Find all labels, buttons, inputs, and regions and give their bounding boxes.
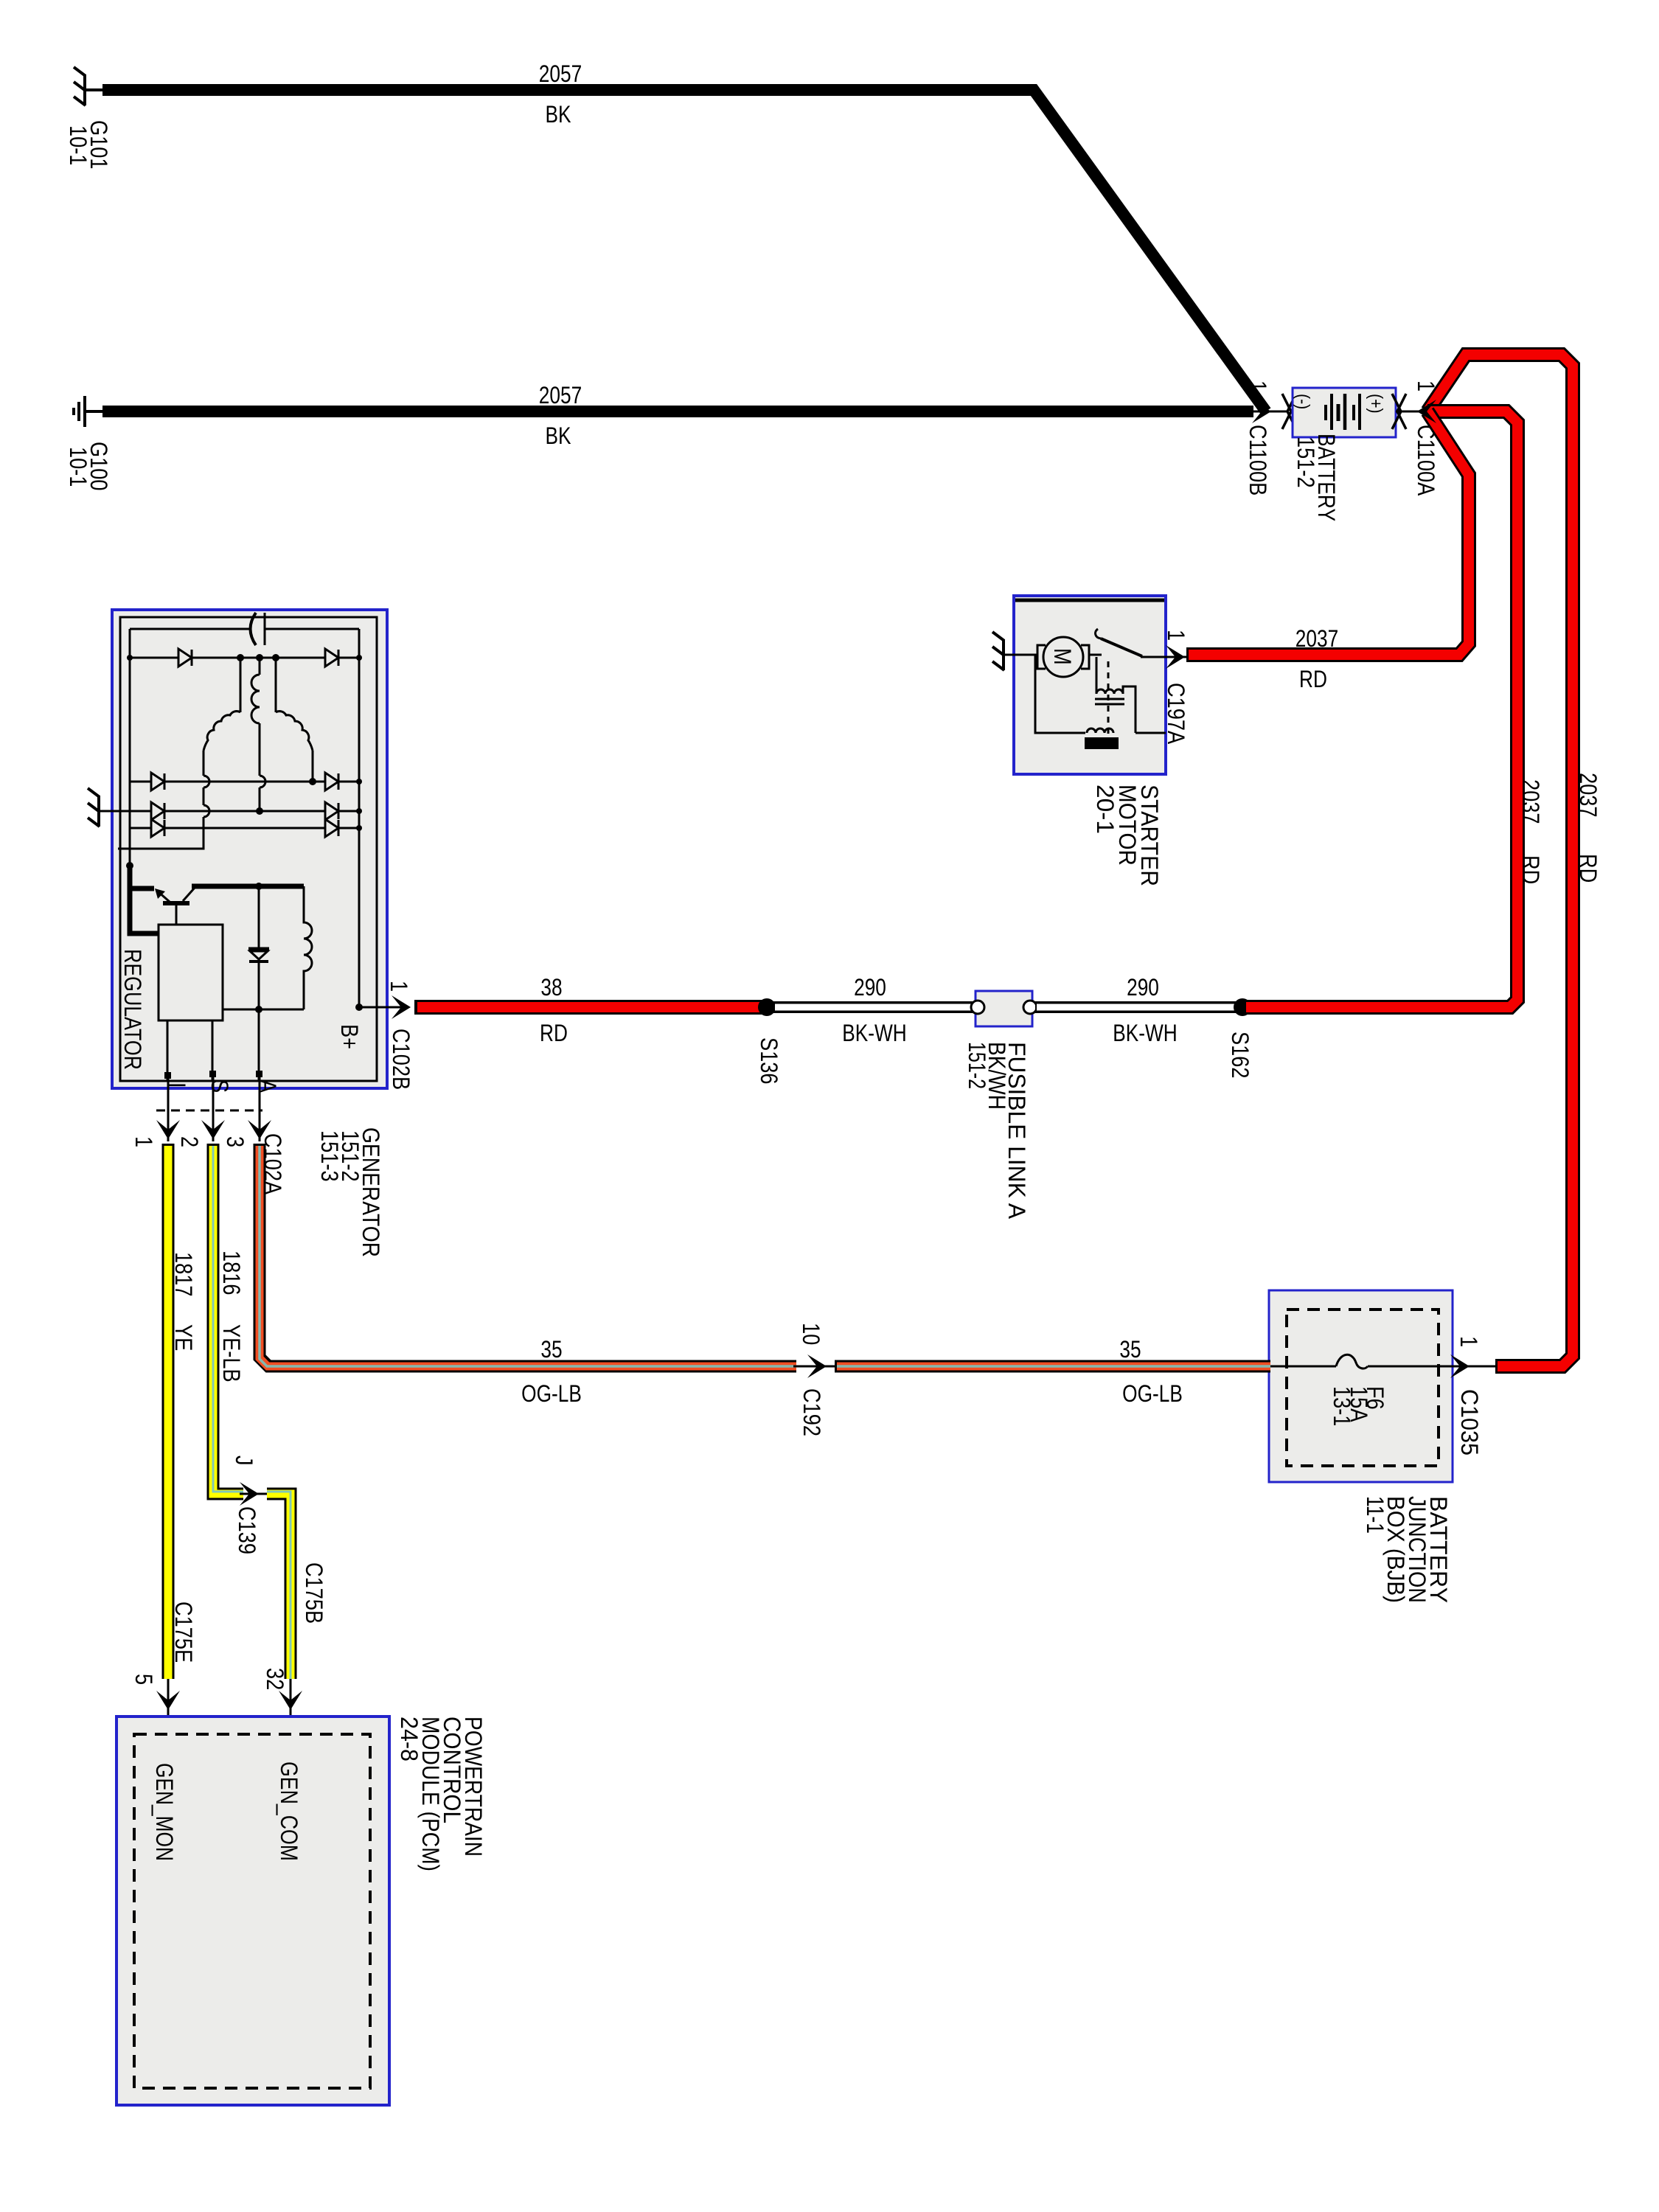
svg-text:32: 32 xyxy=(262,1668,288,1690)
svg-text:GEN_COM: GEN_COM xyxy=(276,1761,302,1861)
svg-text:10-1: 10-1 xyxy=(65,125,91,165)
svg-text:2037: 2037 xyxy=(1575,773,1601,818)
ground symbol (generator) xyxy=(88,788,100,827)
wire 35 OG-LB (generator A to C192) xyxy=(260,1144,796,1366)
svg-text:C175B: C175B xyxy=(301,1562,327,1624)
junction dots field circuit xyxy=(255,883,262,890)
wire into fuse xyxy=(1269,1366,1336,1368)
wire switch to box edge xyxy=(1141,656,1166,658)
svg-text:1: 1 xyxy=(1163,630,1189,641)
wire right bus B+ xyxy=(358,629,361,1007)
svg-text:OG-LB: OG-LB xyxy=(521,1380,582,1407)
svg-text:RD: RD xyxy=(1299,666,1327,692)
svg-text:J: J xyxy=(231,1455,257,1466)
diode D3 xyxy=(151,773,164,790)
svg-text:S162: S162 xyxy=(1227,1032,1253,1079)
field diode D9 xyxy=(258,886,260,1009)
svg-text:YE: YE xyxy=(170,1324,197,1351)
regulator pin I lead xyxy=(167,1020,169,1081)
wire 35 OG-LB (C192 to BJB) xyxy=(835,1360,1270,1373)
PCM dashed box xyxy=(134,1734,370,2088)
PCM pin 32 arrow xyxy=(290,1679,292,1734)
regulator pin S lead xyxy=(212,1020,214,1081)
connector C102A dashed line xyxy=(156,1110,262,1112)
wire stub G100 xyxy=(85,410,105,413)
wire 2037 RD battery to BJB (outer) xyxy=(1427,355,1573,1366)
connector C139 arrow J xyxy=(240,1493,270,1495)
C102A pin leads xyxy=(168,1077,260,1141)
svg-text:REGULATOR: REGULATOR xyxy=(119,949,146,1070)
wire collector bus (thick) xyxy=(192,884,304,889)
svg-text:11-1: 11-1 xyxy=(1362,1496,1388,1534)
svg-text:(-): (-) xyxy=(1293,394,1313,409)
svg-text:151-2: 151-2 xyxy=(964,1042,990,1089)
fusible link terminals xyxy=(971,1001,984,1014)
svg-text:M: M xyxy=(1049,648,1076,665)
generator box xyxy=(112,610,387,1088)
svg-text:BK: BK xyxy=(546,422,571,449)
svg-text:1: 1 xyxy=(1245,380,1271,392)
stator right winding xyxy=(276,712,313,751)
svg-text:13-1: 13-1 xyxy=(1329,1386,1355,1426)
connector C1100B arrow xyxy=(1253,411,1287,413)
starter box inner top edge xyxy=(1015,599,1164,602)
svg-text:1: 1 xyxy=(386,981,412,992)
stator right chain down xyxy=(312,751,314,782)
svg-text:1816: 1816 xyxy=(218,1251,245,1295)
transistor Q1 base lead xyxy=(175,903,178,925)
regulator pin A lead xyxy=(258,1009,260,1081)
wire 290 BK-WH (S136 to fusible link) xyxy=(771,1001,973,1013)
wire rectifier row 1 xyxy=(130,657,359,659)
svg-text:RD: RD xyxy=(1575,854,1601,883)
motor brush left xyxy=(1037,645,1046,669)
svg-text:290: 290 xyxy=(854,974,886,1001)
wire stub G101 xyxy=(85,88,105,91)
wire left leg xyxy=(1035,655,1085,733)
wire fuse to C1035 xyxy=(1368,1366,1497,1368)
wire 38 RD (generator B+ to S136) xyxy=(414,1000,771,1015)
wire into motor xyxy=(1014,654,1037,656)
transistor Q1 collector xyxy=(183,888,195,901)
connector C102B arrow xyxy=(392,995,411,1019)
svg-text:OG-LB: OG-LB xyxy=(1122,1380,1183,1407)
svg-text:1: 1 xyxy=(1455,1336,1482,1347)
stator center coil xyxy=(251,658,260,723)
diode D5 xyxy=(151,802,164,820)
wire top internal xyxy=(130,628,359,630)
svg-text:A: A xyxy=(254,1079,281,1093)
wire rectifier row 2 xyxy=(130,781,359,783)
svg-text:2057: 2057 xyxy=(539,382,582,408)
svg-text:GEN_MON: GEN_MON xyxy=(151,1763,178,1861)
field coil L1 xyxy=(304,886,312,1009)
svg-text:151-3: 151-3 xyxy=(316,1130,343,1182)
diode D2 xyxy=(325,649,338,667)
BJB dashed box xyxy=(1287,1310,1439,1466)
stator drop right xyxy=(275,658,277,712)
stator drop left xyxy=(240,658,242,712)
wire 2057 BK (G101 to battery, with diagonal) xyxy=(102,90,1266,411)
ground symbol (starter) xyxy=(992,632,1004,670)
svg-text:5: 5 xyxy=(131,1674,157,1685)
solenoid coil 1 xyxy=(1096,689,1123,694)
diode D1 xyxy=(178,649,192,667)
wire 1816 YE-LB (C139 to PCM) xyxy=(267,1494,291,1679)
pin terminal dots xyxy=(164,1072,171,1079)
node dot left bus xyxy=(126,862,133,869)
svg-text:BK: BK xyxy=(546,101,571,128)
svg-text:10: 10 xyxy=(798,1323,824,1345)
PCM pin 5 arrow xyxy=(167,1679,170,1734)
battery box 151-2 xyxy=(1293,388,1396,437)
splice S136 xyxy=(758,998,776,1016)
generator inner frame xyxy=(120,617,377,1081)
connector C197A arrow xyxy=(1166,656,1192,658)
thick bus segments (regulator supply) xyxy=(130,863,159,933)
junction dots stator/rows xyxy=(237,654,244,661)
wire rectifier row 3 xyxy=(130,827,359,829)
svg-text:1: 1 xyxy=(131,1136,157,1147)
diode D7 xyxy=(151,819,164,837)
solenoid core block xyxy=(1085,737,1119,749)
switch blade xyxy=(1101,639,1142,656)
ground wire into generator xyxy=(99,810,359,813)
wire 1816 YE-LB (generator S to C139) xyxy=(213,1144,243,1494)
svg-text:38: 38 xyxy=(540,974,562,1001)
svg-text:C192: C192 xyxy=(799,1388,825,1436)
svg-text:3: 3 xyxy=(222,1136,248,1147)
diode D8 xyxy=(325,819,338,837)
battery cell plates xyxy=(1324,405,1327,420)
svg-text:151-2: 151-2 xyxy=(1293,437,1319,488)
starter motor box xyxy=(1014,596,1166,774)
svg-text:35: 35 xyxy=(540,1336,562,1363)
fuse F6 15A xyxy=(1336,1354,1368,1368)
svg-text:C102B: C102B xyxy=(388,1029,414,1090)
connector C192 arrow xyxy=(793,1366,838,1368)
wire 290 BK-WH (fusible link to S162) xyxy=(1035,1001,1239,1013)
svg-text:BK-WH: BK-WH xyxy=(1113,1020,1178,1046)
diode D6 xyxy=(325,802,338,820)
splice S162 xyxy=(1234,998,1251,1016)
C102A pin arrows xyxy=(156,1120,180,1139)
solenoid linkage dashed xyxy=(1107,661,1110,740)
motor brush right xyxy=(1081,645,1089,669)
svg-text:C1035: C1035 xyxy=(1456,1389,1483,1455)
svg-text:1817: 1817 xyxy=(170,1252,197,1297)
svg-text:(+): (+) xyxy=(1366,394,1386,414)
svg-text:C197A: C197A xyxy=(1163,683,1189,745)
svg-text:BK-WH: BK-WH xyxy=(842,1020,907,1046)
connector C1035 arrow xyxy=(1450,1354,1470,1378)
regulator box xyxy=(159,925,223,1020)
wire 2037 RD battery to starter (inner) xyxy=(1186,411,1469,655)
svg-text:RD: RD xyxy=(540,1020,568,1046)
stator left chain down xyxy=(118,751,209,849)
fusible link A box xyxy=(975,991,1032,1026)
stator center drop with hop xyxy=(260,723,265,811)
svg-text:2: 2 xyxy=(176,1136,203,1147)
svg-text:B+: B+ xyxy=(336,1024,363,1049)
diode D4 xyxy=(325,773,338,790)
svg-text:24-8: 24-8 xyxy=(396,1717,422,1761)
transistor Q1 base bar xyxy=(163,901,189,905)
ground stub starter xyxy=(1004,654,1015,656)
wire motor to switch xyxy=(1089,654,1102,656)
stator left winding xyxy=(204,712,240,751)
transistor Q1 emitter xyxy=(158,891,170,902)
svg-text:20-1: 20-1 xyxy=(1092,785,1119,834)
svg-text:35: 35 xyxy=(1119,1336,1141,1363)
svg-text:S136: S136 xyxy=(756,1037,782,1085)
motor M xyxy=(1043,637,1083,677)
connector C1100A arrow (over red) xyxy=(1417,400,1436,423)
connector C1100A arrow xyxy=(1396,411,1429,413)
ground G100 xyxy=(74,396,85,427)
capacitor C (noise suppressor) xyxy=(251,613,257,645)
solenoid coil 2 xyxy=(1087,728,1113,733)
svg-text:C139: C139 xyxy=(234,1506,260,1554)
svg-text:C175E: C175E xyxy=(170,1601,197,1663)
svg-text:YE-LB: YE-LB xyxy=(218,1324,245,1382)
battery junction box (BJB) xyxy=(1269,1290,1453,1482)
ground G101 xyxy=(74,67,86,105)
wire junction to coil xyxy=(1096,657,1098,694)
wire 2037 RD battery to S162 (middle) xyxy=(1246,411,1517,1007)
wire 1817 YE (generator I to PCM) xyxy=(162,1144,175,1679)
svg-text:10-1: 10-1 xyxy=(65,447,91,487)
svg-text:C1100B: C1100B xyxy=(1245,425,1271,495)
svg-text:S: S xyxy=(206,1079,233,1093)
svg-text:290: 290 xyxy=(1127,974,1159,1001)
wire bottom to box edge xyxy=(1135,732,1166,734)
wire regulator A row xyxy=(223,1009,304,1011)
wire left bus xyxy=(129,629,131,870)
wire coil1 to right leg xyxy=(1123,686,1135,733)
wire 2057 BK (G100 to battery) xyxy=(102,406,1253,417)
svg-text:2057: 2057 xyxy=(539,60,582,87)
wire B+ exit xyxy=(359,1006,402,1009)
powertrain control module (PCM) box xyxy=(116,1717,389,2105)
